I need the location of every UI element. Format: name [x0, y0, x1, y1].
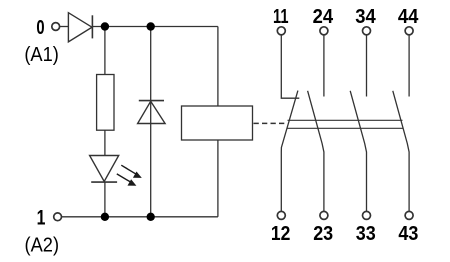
wire resistor branch top — [104, 27, 106, 75]
diode D1 (series, pointing right) — [68, 13, 92, 42]
LED arrow 2 — [117, 174, 137, 186]
wire LED to bottom rail — [104, 182, 106, 217]
svg-text:0: 0 — [36, 16, 44, 39]
contact pole 4: terminal circle 44 — [405, 27, 413, 35]
contact pole 4: fixed contact wire — [408, 35, 410, 97]
svg-text:1: 1 — [37, 205, 46, 229]
contact pole 3: label 33 — [356, 223, 376, 245]
LED D3 — [90, 156, 119, 183]
terminal label (A1) — [24, 43, 59, 66]
svg-text:(A2): (A2) — [25, 234, 60, 257]
contact pole 3: fixed contact wire — [366, 35, 368, 97]
contact pole 1: label 11 — [273, 6, 289, 28]
wire bottom rail — [62, 216, 218, 218]
contact pole 3: terminal circle 33 — [363, 211, 371, 219]
wire coil bottom to bottom rail — [217, 140, 219, 217]
contact pole 2: terminal circle 24 — [320, 27, 328, 35]
contact pole 3: moving blade — [350, 91, 366, 212]
mechanical linkage bar top — [288, 119, 403, 121]
svg-text:(A1): (A1) — [24, 43, 59, 66]
mechanical linkage bar bottom — [287, 127, 404, 129]
svg-text:24: 24 — [313, 6, 334, 28]
contact pole 2: label 24 — [313, 6, 334, 28]
terminal circle A1 — [52, 23, 60, 31]
terminal circle A2 — [54, 213, 62, 221]
terminal label 0 — [36, 16, 44, 39]
svg-text:23: 23 — [313, 223, 333, 245]
wire resistor to LED — [104, 130, 106, 155]
contact pole 2: fixed contact wire — [323, 35, 325, 97]
contact pole 3: terminal circle 34 — [363, 27, 371, 35]
contact pole 1: terminal circle 12 — [277, 211, 285, 219]
junction node bottom-right — [147, 213, 155, 221]
junction node bottom-left — [101, 213, 109, 221]
contact pole 4: label 44 — [398, 6, 419, 28]
contact pole 3: label 34 — [355, 6, 376, 28]
resistor R1 — [97, 75, 114, 131]
terminal label (A2) — [25, 234, 60, 257]
contact pole 1: moving blade — [281, 91, 298, 212]
svg-text:11: 11 — [273, 6, 289, 28]
contact pole 2: moving blade — [308, 91, 324, 212]
LED arrow 1 — [121, 165, 142, 178]
mechanical linkage dashed line — [254, 122, 288, 124]
terminal label 1 — [37, 205, 46, 229]
contact pole 1: fixed contact with seat (NC) — [281, 35, 299, 98]
wire A1 terminal to diode — [60, 26, 69, 28]
svg-text:43: 43 — [398, 223, 418, 245]
junction node top-right — [147, 22, 155, 30]
relay coil K1 — [182, 106, 253, 140]
wire right down to coil top — [217, 27, 219, 107]
suppressor diode D2 (parallel, pointing up) — [138, 101, 166, 124]
svg-text:33: 33 — [356, 223, 376, 245]
contact pole 2: terminal circle 23 — [320, 211, 328, 219]
contact pole 4: label 43 — [398, 223, 418, 245]
junction node top-left — [101, 22, 109, 30]
wire top rail — [92, 26, 217, 28]
wire suppressor diode branch — [150, 27, 152, 217]
contact pole 1: terminal circle 11 — [277, 27, 285, 35]
svg-text:12: 12 — [271, 223, 291, 245]
contact pole 2: label 23 — [313, 223, 333, 245]
svg-text:34: 34 — [355, 6, 376, 28]
contact pole 1: label 12 — [271, 223, 291, 245]
contact pole 4: moving blade — [393, 91, 409, 212]
svg-text:44: 44 — [398, 6, 419, 28]
contact pole 4: terminal circle 43 — [405, 211, 413, 219]
